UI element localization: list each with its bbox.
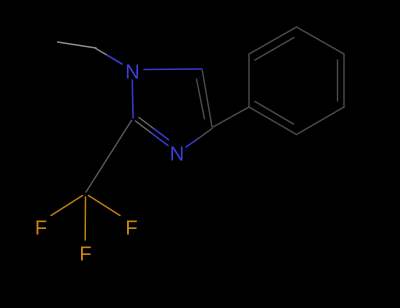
phenyl edge Ph6-Ph1 bbox=[249, 107, 297, 135]
double bond C2=N3 inner line blue half bbox=[154, 129, 169, 140]
bond C-F bottom bbox=[84, 197, 86, 240]
svg-text:N: N bbox=[125, 62, 139, 84]
phenyl edge Ph3-Ph4 bbox=[297, 27, 345, 54]
wire bond N3-C4 blue half bbox=[186, 138, 199, 147]
phenyl edge Ph1-Ph2 bbox=[248, 54, 250, 107]
wire bond N3-C4 gray half bbox=[199, 129, 212, 139]
double bond C2=N3 inner line gray half bbox=[139, 118, 154, 129]
phenyl double bond inner Ph6-Ph1 bbox=[255, 102, 294, 125]
svg-text:F: F bbox=[79, 244, 91, 266]
bond C-F right bbox=[89, 196, 121, 216]
svg-text:F: F bbox=[35, 218, 47, 240]
wire bond N1-CA blue half bbox=[106, 55, 122, 65]
double bond C2=N3 outer line gray half bbox=[136, 121, 153, 134]
wire bond CA-CB chain bbox=[58, 42, 97, 48]
phenyl double bond inner Ph4-Ph5 bbox=[337, 60, 339, 101]
double bond C2=N3 outer line blue half bbox=[152, 134, 168, 146]
phenyl double bond inner Ph2-Ph3 bbox=[255, 38, 294, 61]
bond C-F left bbox=[51, 196, 83, 216]
wire bond N1-CA gray half bbox=[95, 48, 106, 55]
wire bond C2-CF3 carbon chain bbox=[86, 121, 132, 193]
svg-text:N: N bbox=[170, 144, 184, 166]
phenyl edge Ph4-Ph5 bbox=[343, 54, 345, 107]
double bond C5=C4 inner line bbox=[197, 79, 205, 119]
phenyl edge Ph2-Ph3 bbox=[249, 27, 297, 54]
wire bond N1-C5 horizontal (blue) bbox=[144, 68, 202, 71]
phenyl edge Ph5-Ph6 bbox=[297, 107, 345, 135]
svg-text:F: F bbox=[125, 218, 137, 240]
wire bond C4-phenyl attachment bbox=[213, 107, 249, 127]
wire bond N1-C2 vertical (blue) bbox=[131, 80, 134, 118]
double bond C5=C4 outer line bbox=[202, 71, 212, 128]
